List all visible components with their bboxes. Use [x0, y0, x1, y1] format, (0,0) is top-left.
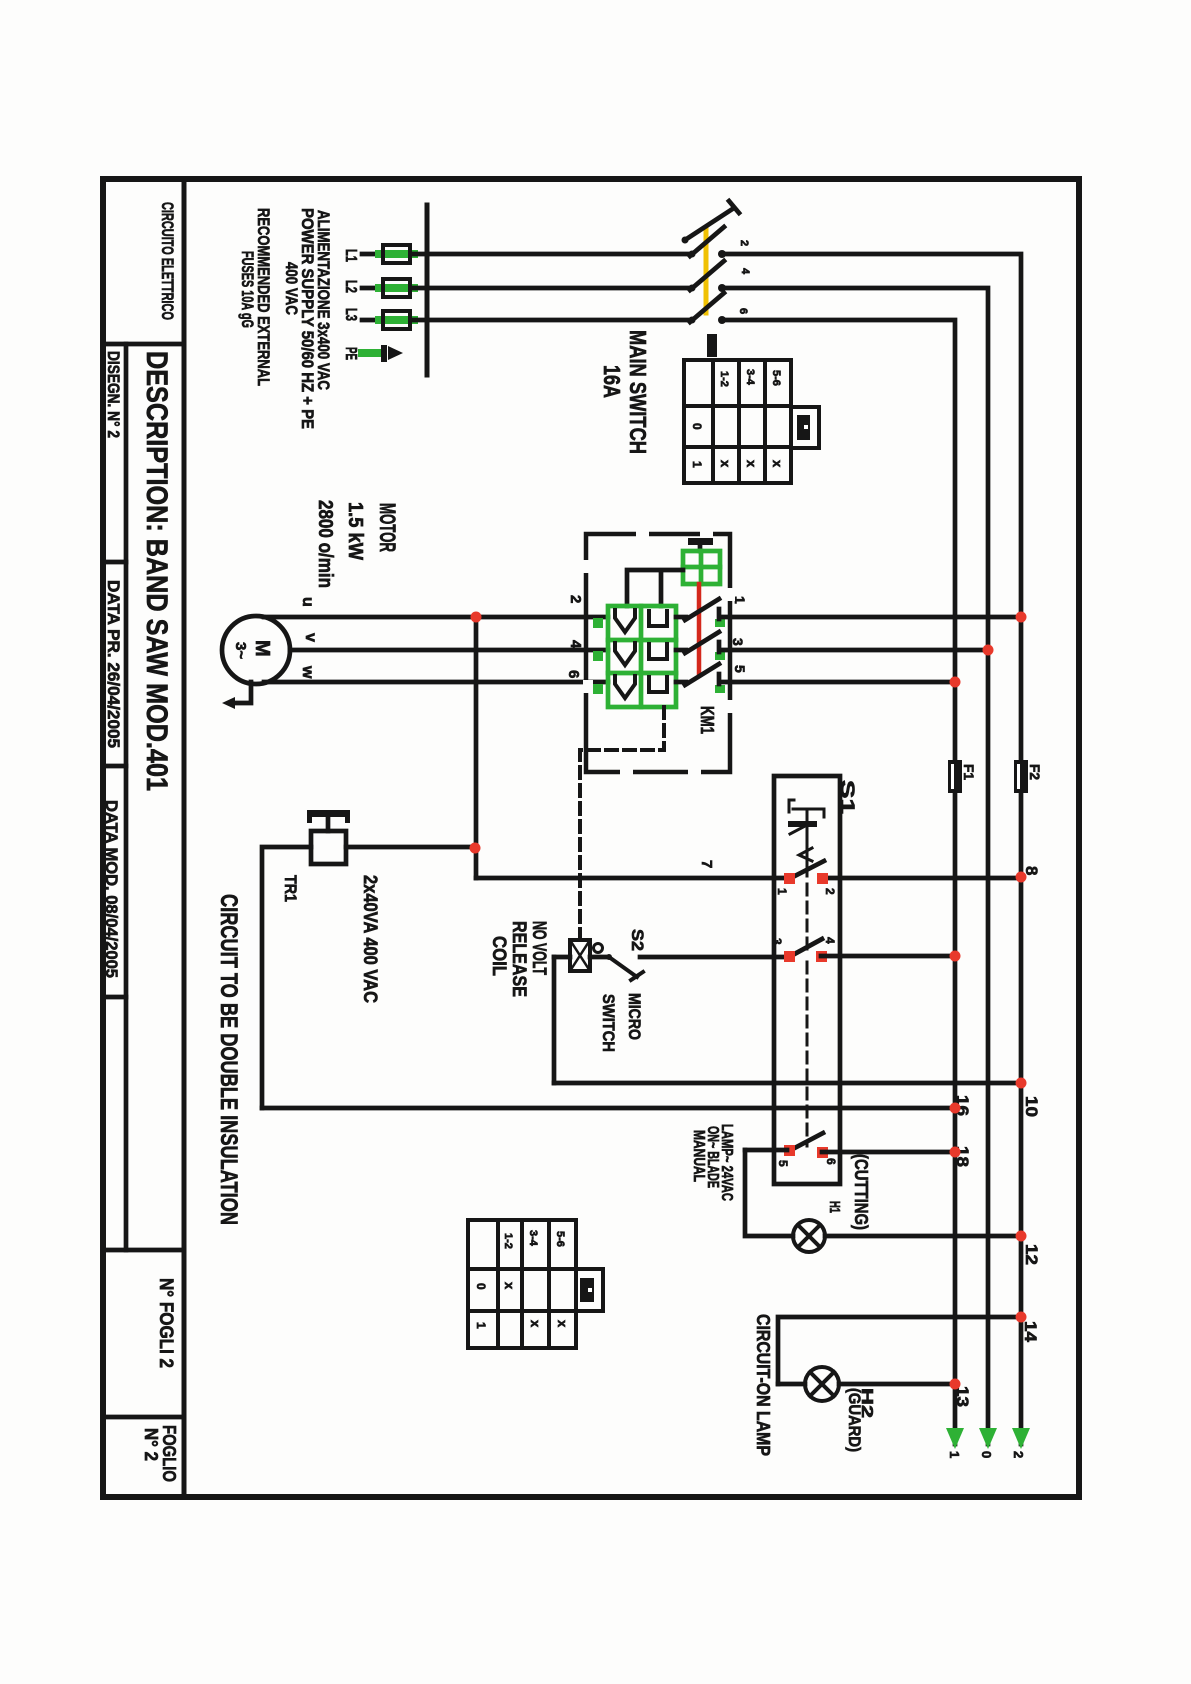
svg-text:16A: 16A	[599, 365, 625, 398]
svg-text:3~: 3~	[232, 642, 249, 659]
coil terminal	[594, 944, 603, 953]
svg-text:400 VAC: 400 VAC	[282, 262, 301, 315]
wire rung 14	[778, 1317, 1019, 1384]
fuse FU1	[948, 760, 977, 793]
svg-text:x: x	[744, 460, 759, 468]
svg-text:4: 4	[739, 268, 751, 275]
wire rung 10	[554, 1081, 1019, 1086]
node 956 junction	[950, 951, 961, 962]
wire lamp H2 right rung 13	[839, 1382, 953, 1387]
svg-text:2800 o/min: 2800 o/min	[314, 500, 336, 588]
svg-text:PE: PE	[342, 347, 359, 360]
title block divider	[182, 179, 187, 1497]
node 10 junction	[1016, 1078, 1027, 1089]
wire rung 956 right	[821, 954, 953, 959]
terminal arrow 2	[1012, 1428, 1030, 1449]
node 8 junction	[1016, 872, 1027, 883]
overload contact elements	[649, 611, 667, 692]
transformer TR1	[307, 810, 350, 864]
svg-text:7: 7	[698, 860, 715, 868]
wire lamp H1 right rung 12	[825, 1234, 1019, 1239]
junction wire from U line	[474, 617, 479, 878]
svg-text:L2: L2	[342, 280, 359, 293]
svg-text:x: x	[528, 1320, 543, 1328]
overload relay FR1 (green grid)	[608, 606, 676, 707]
overload trip dashed link	[580, 707, 664, 938]
terminal arrow 0	[979, 1428, 997, 1449]
overload relay internal wiring	[627, 570, 683, 606]
overload terminal labels right	[730, 596, 748, 673]
motor M1	[222, 616, 290, 684]
wire motor V	[290, 648, 608, 653]
svg-text:v: v	[302, 633, 319, 642]
svg-text:NO VOLT: NO VOLT	[528, 921, 549, 975]
svg-text:5: 5	[732, 665, 748, 673]
svg-text:14: 14	[1021, 1321, 1040, 1343]
bus boundary line	[425, 205, 430, 375]
svg-text:L1: L1	[342, 249, 359, 262]
svg-text:2: 2	[1011, 1451, 1026, 1458]
svg-text:TR1: TR1	[281, 875, 300, 902]
svg-text:CIRCUIT-ON LAMP: CIRCUIT-ON LAMP	[753, 1314, 773, 1456]
wire contact3 right rung 18	[822, 1150, 953, 1155]
wire coil bypass	[552, 957, 557, 1083]
svg-text:KM1: KM1	[697, 706, 717, 734]
svg-text:FOGLIO: FOGLIO	[159, 1425, 179, 1482]
switch S1 mech link dashed	[806, 884, 809, 1146]
title block box lines	[103, 344, 184, 1417]
lamp H2	[805, 1367, 839, 1401]
main switch handle	[682, 201, 740, 244]
svg-text:0: 0	[979, 1451, 994, 1458]
node L2 rail junction	[983, 645, 994, 656]
node L3 rail junction	[950, 677, 961, 688]
svg-text:3: 3	[770, 938, 784, 945]
node U junction	[471, 612, 482, 623]
wire KM1 out 1	[721, 615, 1019, 620]
svg-text:1: 1	[474, 1322, 488, 1329]
svg-text:5: 5	[776, 1160, 790, 1167]
svg-text:1: 1	[690, 461, 704, 468]
switch S1 contact 2	[770, 937, 837, 962]
svg-text:S2: S2	[628, 929, 647, 951]
svg-text:2: 2	[823, 888, 837, 895]
svg-text:x: x	[502, 1282, 517, 1290]
svg-text:MAIN SWITCH: MAIN SWITCH	[625, 330, 651, 454]
svg-text:5-6: 5-6	[554, 1231, 566, 1247]
switch S1 contact 1	[775, 861, 837, 895]
svg-text:MICRO: MICRO	[625, 993, 644, 1040]
svg-text:DATA PR. 26/04/2005: DATA PR. 26/04/2005	[104, 580, 123, 748]
svg-text:MOTOR: MOTOR	[375, 503, 400, 552]
starter enclosure (dashed)	[586, 534, 730, 772]
svg-text:1: 1	[775, 888, 789, 895]
wire TR1 left loop	[262, 847, 311, 1108]
svg-text:N° 2: N° 2	[141, 1428, 161, 1461]
node 13 junction	[950, 1379, 961, 1390]
svg-text:RELEASE: RELEASE	[508, 921, 529, 997]
overload heater elements	[615, 610, 635, 698]
svg-text:(GUARD): (GUARD)	[845, 1388, 864, 1452]
micro switch S2	[606, 954, 643, 980]
svg-text:DISEGN. N° 2: DISEGN. N° 2	[104, 351, 123, 438]
svg-text:H1: H1	[826, 1201, 843, 1213]
motor rating text	[314, 500, 400, 588]
svg-text:2: 2	[567, 595, 584, 603]
wire motor U	[264, 615, 608, 620]
contactor coil T-bar	[688, 538, 713, 551]
svg-text:u: u	[299, 597, 316, 607]
svg-text:DESCRIPTION: BAND SAW MOD.401: DESCRIPTION: BAND SAW MOD.401	[140, 351, 173, 791]
svg-text:COIL: COIL	[488, 936, 509, 976]
main switch mechanical link (yellow)	[704, 230, 709, 313]
svg-text:CIRCUIT TO BE DOUBLE INSULATIO: CIRCUIT TO BE DOUBLE INSULATION	[215, 894, 242, 1225]
wire L2 entry	[362, 286, 381, 291]
svg-text:POWER SUPPLY 50/60 HZ + PE: POWER SUPPLY 50/60 HZ + PE	[298, 208, 317, 429]
coil text	[488, 921, 549, 997]
overload terminal labels left	[565, 595, 584, 678]
svg-text:FUSES 10A gG: FUSES 10A gG	[238, 251, 257, 328]
wire rung 16	[262, 1106, 953, 1111]
svg-text:S1: S1	[836, 780, 857, 815]
wire L2 to switch	[414, 286, 692, 291]
lamp H1	[793, 1220, 825, 1252]
svg-text:x: x	[718, 460, 733, 468]
node L1 rail junction	[1016, 612, 1027, 623]
wire L2 drop rail	[722, 288, 988, 1444]
svg-text:0: 0	[690, 423, 704, 430]
svg-text:w: w	[299, 665, 316, 679]
S1 table handle glyph	[580, 1278, 594, 1302]
svg-text:1.5 kW: 1.5 kW	[344, 502, 366, 560]
svg-text:N° FOGLI 2: N° FOGLI 2	[155, 1278, 176, 1368]
svg-text:3-4: 3-4	[527, 1230, 539, 1247]
svg-text:4: 4	[567, 640, 584, 649]
svg-text:5-6: 5-6	[770, 370, 782, 386]
node 16 junction	[950, 1103, 961, 1114]
svg-text:SWITCH: SWITCH	[599, 994, 618, 1052]
svg-text:MANUAL: MANUAL	[690, 1130, 707, 1182]
wire lamp H2 left	[778, 1382, 805, 1387]
border frame	[103, 179, 1079, 1497]
switch S1 contact 3	[776, 1133, 838, 1167]
table handle glyph	[797, 415, 810, 440]
svg-text:1-2: 1-2	[718, 371, 730, 387]
svg-text:1: 1	[947, 1451, 962, 1458]
node 14 junction	[1016, 1312, 1027, 1323]
contactor contact pole 2	[676, 632, 719, 654]
fuse F3 L3	[379, 311, 414, 329]
coil KA1	[570, 940, 590, 971]
node 12 junction	[1016, 1231, 1027, 1242]
svg-text:x: x	[770, 460, 785, 468]
wire L3 entry	[362, 318, 381, 323]
svg-text:3: 3	[730, 638, 746, 646]
wire TR1 right to rail	[346, 845, 476, 850]
contactor contact pole 1	[676, 599, 719, 621]
contactor coil KM1 (green)	[683, 551, 720, 584]
contactor contact pole 3	[676, 664, 719, 686]
switch S1 actuator	[788, 800, 824, 876]
motor phase labels	[299, 597, 319, 679]
contactor mechanical link (red)	[697, 584, 702, 674]
main switch shaft bar	[707, 334, 717, 357]
PE terminal	[362, 345, 403, 362]
wire L1 to switch	[414, 252, 692, 257]
wire motor W	[264, 680, 608, 685]
terminal arrow 1	[946, 1428, 964, 1449]
svg-text:10: 10	[1022, 1096, 1041, 1117]
node 18 junction	[950, 1147, 961, 1158]
svg-text:M: M	[251, 640, 273, 657]
S1 table labels	[474, 1230, 570, 1329]
overload terminal marks (green)	[593, 618, 725, 694]
svg-text:12: 12	[1022, 1244, 1041, 1265]
svg-text:0: 0	[474, 1283, 488, 1290]
motor PE tail	[222, 682, 251, 709]
lamp H2 labels	[753, 1314, 875, 1456]
wire L3 drop rail	[722, 320, 955, 1444]
main switch pole 2	[689, 261, 727, 292]
main switch pole 1	[689, 227, 727, 258]
wire contact3 left	[745, 1148, 787, 1153]
wire coil right	[590, 955, 608, 960]
svg-text:3-4: 3-4	[744, 369, 756, 386]
fuse F2 L2	[379, 279, 414, 297]
fuse FU2	[1014, 760, 1043, 793]
switch S1 enclosure	[774, 776, 840, 1184]
wire L1 drop rail	[722, 254, 1021, 1444]
micro switch labels	[599, 929, 647, 1052]
svg-text:(CUTTING): (CUTTING)	[851, 1154, 871, 1230]
svg-text:6: 6	[737, 308, 749, 314]
wire rung 8	[476, 876, 787, 881]
fuse F1 L1	[379, 245, 414, 263]
svg-text:CIRCUITO ELETTRICO: CIRCUITO ELETTRICO	[158, 202, 177, 320]
svg-text:F1: F1	[961, 764, 977, 780]
wire L3 to switch	[414, 318, 692, 323]
lamp H1 labels	[690, 1124, 871, 1230]
wire coil left	[554, 955, 570, 960]
svg-text:1-2: 1-2	[502, 1233, 514, 1249]
wire KM1 out 2	[721, 648, 986, 653]
svg-text:6: 6	[565, 670, 582, 678]
wire S2 to S1	[640, 955, 787, 960]
wire lamp H1 left	[745, 1150, 793, 1236]
node TR1 junction	[470, 843, 481, 854]
svg-text:x: x	[555, 1320, 570, 1328]
svg-text:2: 2	[738, 240, 750, 246]
wire L1 entry	[362, 252, 381, 257]
main switch pole 3	[689, 293, 727, 324]
svg-text:L3: L3	[342, 308, 359, 321]
svg-text:F2: F2	[1027, 764, 1043, 780]
svg-text:6: 6	[824, 1158, 838, 1165]
svg-text:2x40VA 400 VAC: 2x40VA 400 VAC	[359, 875, 380, 1003]
svg-text:DATA MOD. 08/04/2005: DATA MOD. 08/04/2005	[102, 800, 121, 978]
wire KM1 out 3	[721, 680, 953, 685]
svg-text:4: 4	[823, 937, 837, 944]
table labels	[690, 369, 785, 468]
main switch contact table	[684, 360, 819, 483]
